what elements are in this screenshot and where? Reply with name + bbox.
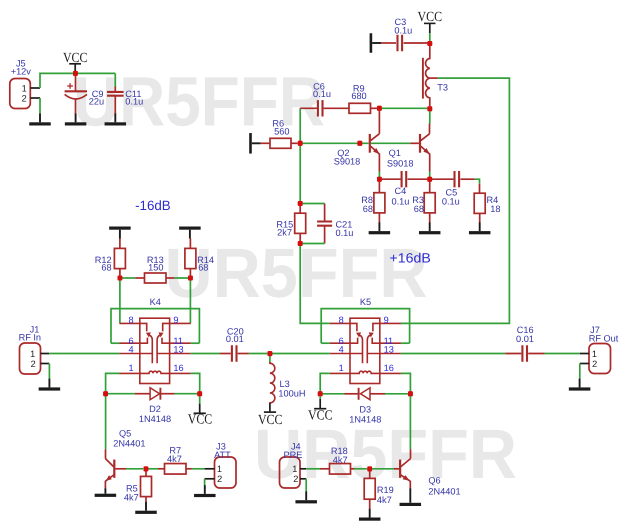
svg-text:Q6: Q6 <box>428 475 440 485</box>
svg-text:1: 1 <box>30 349 35 359</box>
svg-text:0.1u: 0.1u <box>394 25 412 35</box>
svg-text:9: 9 <box>384 315 389 325</box>
ground under R4 <box>469 222 491 234</box>
svg-text:S9018: S9018 <box>387 158 414 168</box>
connector J3 ATT <box>205 441 236 488</box>
resistor R13 150 <box>120 255 190 283</box>
svg-text:13: 13 <box>384 345 394 355</box>
wire K5 pin13 to C16 <box>401 353 506 355</box>
wire R9 node to T3 bottom node <box>379 107 429 109</box>
wire base row Q2 to Q1 <box>371 142 410 144</box>
svg-text:2k7: 2k7 <box>277 227 292 237</box>
wire D2 anode node to Q5 collector <box>105 394 107 450</box>
wire Q1 collector <box>429 109 431 124</box>
svg-text:0.01: 0.01 <box>226 334 244 344</box>
svg-text:2: 2 <box>592 359 597 369</box>
connector J1 RF In <box>19 324 50 374</box>
wire T3 tap to K5 pin9 column <box>401 78 510 323</box>
wire K5 pin1 to D3 cathode node <box>320 373 330 393</box>
svg-text:1N4148: 1N4148 <box>349 414 381 424</box>
svg-text:13: 13 <box>173 345 183 355</box>
junction base wire <box>357 141 362 146</box>
svg-text:4k7: 4k7 <box>333 455 348 465</box>
resistor R7 4k7 <box>146 446 205 475</box>
svg-text:S9018: S9018 <box>334 156 361 166</box>
junction D2 anode <box>103 391 108 396</box>
junction R18 / R19 / Q6 base <box>367 466 372 471</box>
junction C3/VCC/T3 <box>427 41 432 46</box>
svg-text:RF Out: RF Out <box>589 333 619 343</box>
svg-text:1N4148: 1N4148 <box>139 414 171 424</box>
ground left of R6 (rotated) <box>249 133 260 154</box>
wire J3 pin2 to ground <box>204 479 206 486</box>
svg-text:150: 150 <box>148 263 163 273</box>
svg-text:2: 2 <box>217 474 222 484</box>
wire J7 pin2 to ground <box>579 364 581 379</box>
junction VCC node <box>73 71 78 76</box>
svg-text:0.1u: 0.1u <box>125 97 143 107</box>
svg-text:T3: T3 <box>437 83 448 93</box>
svg-text:9: 9 <box>173 315 178 325</box>
junction R15 top <box>298 201 303 206</box>
svg-text:0.01: 0.01 <box>516 334 534 344</box>
svg-text:+12v: +12v <box>11 67 32 77</box>
capacitor C4 0.1u <box>391 171 427 206</box>
wire Q1 emitter to R3 <box>429 154 431 172</box>
wire emitter row R8 to C4 <box>382 178 401 180</box>
inductor L3 100uH <box>270 354 306 403</box>
wire C6 left column upper (C6 to base row to R15) <box>299 108 301 203</box>
svg-text:R19: R19 <box>377 485 394 495</box>
svg-text:68: 68 <box>198 263 208 273</box>
resistor R9 680 <box>349 84 377 114</box>
wire emitter row C4 to C5 <box>432 178 453 180</box>
wire Q6 emitter to ground <box>409 481 411 489</box>
junction R14/R13 <box>188 276 193 281</box>
svg-text:K4: K4 <box>150 297 161 307</box>
connector J4 PRE <box>280 441 307 488</box>
svg-text:1: 1 <box>339 363 344 373</box>
svg-text:2: 2 <box>293 474 298 484</box>
power VCC below L3 (inverted) <box>258 403 283 428</box>
wire C5 to R4 <box>475 179 480 184</box>
junction D2 cathode <box>197 391 202 396</box>
ground above R14 (inverted) <box>179 227 201 239</box>
wire J1 pin1 to K4 pin4 <box>49 353 119 355</box>
ground under C11 <box>105 114 127 126</box>
junction Q1 emitter node <box>427 177 432 182</box>
ground under R3 <box>419 222 441 234</box>
svg-text:0.1u: 0.1u <box>313 89 331 99</box>
ground under R8 <box>369 222 391 234</box>
svg-text:Q1: Q1 <box>389 148 401 158</box>
wire K5 pin16 to D3 anode node <box>401 373 411 393</box>
ground under Q5 <box>95 488 117 497</box>
svg-text:18: 18 <box>490 204 500 214</box>
power VCC below D3 (inverted) <box>308 397 333 424</box>
svg-text:D3: D3 <box>359 404 371 414</box>
connector J5 +12v <box>10 58 40 108</box>
ground above R12 (inverted) <box>109 227 130 239</box>
svg-text:D2: D2 <box>149 404 161 414</box>
svg-text:1: 1 <box>128 363 133 373</box>
junction L3 tap <box>268 351 273 356</box>
wire base row Q2 <box>300 142 368 144</box>
junction R9 right / Q2 collector <box>377 106 382 111</box>
svg-text:4k7: 4k7 <box>124 492 139 502</box>
resistor R8 68 <box>361 181 385 223</box>
svg-text:0.1u: 0.1u <box>442 196 460 206</box>
capacitor C3 0.1u <box>381 17 428 51</box>
wire J1 pin2 to ground <box>48 364 50 379</box>
wire C16 to J7 <box>545 353 580 355</box>
wire C21 branch bottom <box>300 243 324 245</box>
ground left of C3 (rotated) <box>370 33 381 53</box>
svg-text:0.1u: 0.1u <box>391 196 409 206</box>
junction Q5 base / R5 / R7 <box>144 466 149 471</box>
transistor Q6 2N4401 <box>410 449 412 459</box>
svg-text:68: 68 <box>414 204 424 214</box>
svg-text:560: 560 <box>274 127 289 137</box>
svg-text:16: 16 <box>173 363 183 373</box>
transistor Q2 S9018 <box>369 134 380 155</box>
ground under J5 <box>29 114 51 126</box>
svg-text:100uH: 100uH <box>278 388 305 398</box>
svg-text:1: 1 <box>217 464 222 474</box>
svg-text:+16dB: +16dB <box>390 251 431 266</box>
relay K4 <box>111 309 199 384</box>
ground under J1 <box>39 379 61 391</box>
transistor Q1 S9018 <box>419 134 430 155</box>
svg-text:UR5FFR: UR5FFR <box>165 234 428 312</box>
capacitor C9 22u electrolytic <box>65 74 105 114</box>
svg-text:4k7: 4k7 <box>377 495 392 505</box>
junction Q2 emitter node <box>377 177 382 182</box>
wire C20 to K5 pin4 <box>249 353 330 355</box>
svg-text:4k7: 4k7 <box>167 454 182 464</box>
svg-text:2N4401: 2N4401 <box>113 438 145 448</box>
svg-text:680: 680 <box>351 91 366 101</box>
ground under Q6 <box>400 488 422 506</box>
ground under J4 <box>295 491 317 503</box>
svg-text:C4: C4 <box>395 186 407 196</box>
svg-text:VCC: VCC <box>188 413 213 428</box>
svg-text:K5: K5 <box>360 297 371 307</box>
capacitor C21 0.1u <box>317 204 353 244</box>
capacitor C16 0.01 <box>505 325 544 362</box>
wire VCC stem to node <box>429 33 431 44</box>
wire Q2 collector <box>378 111 380 134</box>
junction R12/R13 <box>118 276 123 281</box>
capacitor C6 0.1u <box>300 81 349 116</box>
ground under R5 <box>135 502 157 514</box>
wire J4 pin2 to ground <box>305 479 307 492</box>
svg-text:VCC: VCC <box>308 408 333 423</box>
svg-text:4: 4 <box>128 345 133 355</box>
wire R14 node to K4 pin9 <box>189 278 191 323</box>
svg-text:68: 68 <box>363 204 373 214</box>
diode D3 1N4148 (mirrored) <box>320 388 410 425</box>
wire J5 pin1 to VCC rail <box>40 73 115 88</box>
ground under R19 <box>359 509 381 521</box>
resistor R14 68 <box>185 239 214 276</box>
wire C6 left column lower (R15 to K5 pin8) <box>300 244 329 324</box>
wire K4 pin16 to D2 cathode node <box>191 373 200 393</box>
power VCC top-right <box>418 10 443 33</box>
svg-text:-16dB: -16dB <box>135 198 171 213</box>
wire R18 node to Q6 base <box>372 468 394 470</box>
wire Q5 base row <box>116 468 127 470</box>
svg-text:8: 8 <box>128 315 133 325</box>
wire Q5 emitter to ground <box>104 481 106 489</box>
svg-text:8: 8 <box>339 315 344 325</box>
resistor R12 68 <box>95 239 126 276</box>
wire K4 pin13 to C20 <box>191 353 220 355</box>
wire D3 anode node to Q6 collector <box>409 394 411 449</box>
svg-text:Q5: Q5 <box>119 428 131 438</box>
power VCC top-left <box>63 51 88 74</box>
junction R6 / base wire / C6 column <box>298 141 303 146</box>
svg-text:VCC: VCC <box>258 413 283 428</box>
svg-text:1: 1 <box>292 464 297 474</box>
capacitor C11 0.1u <box>107 73 143 114</box>
junction T3 bottom / Q1 collector <box>427 106 432 111</box>
wire K4 pin1 to D2 anode node <box>106 373 120 393</box>
ground under J7 <box>569 379 591 391</box>
svg-text:22u: 22u <box>89 97 104 107</box>
transformer T3 <box>423 45 448 106</box>
transistor Q5 2N4401 (mirrored) <box>105 449 107 459</box>
resistor R19 4k7 <box>364 471 394 509</box>
capacitor C5 0.1u <box>442 171 475 206</box>
junction dots overlay <box>73 41 432 471</box>
svg-text:2N4401: 2N4401 <box>428 486 460 496</box>
relay K5 <box>321 309 409 384</box>
svg-text:0.1u: 0.1u <box>336 228 354 238</box>
wire Q2 emitter to R8 <box>378 154 380 172</box>
resistor R5 4k7 <box>124 471 152 503</box>
ground under J3 <box>194 485 216 497</box>
resistor R3 68 <box>412 181 435 223</box>
svg-text:1: 1 <box>22 84 27 94</box>
resistor R4 18 <box>474 193 500 222</box>
svg-text:PRE: PRE <box>284 450 303 460</box>
junction D3 anode <box>408 391 413 396</box>
junction R15 bottom <box>298 241 303 246</box>
resistor R6 560 <box>261 119 298 149</box>
svg-text:68: 68 <box>101 263 111 273</box>
capacitor C20 0.01 <box>220 326 249 361</box>
svg-text:ATT: ATT <box>214 450 231 460</box>
wire R12 node to K4 pin8 <box>119 278 121 323</box>
svg-text:2: 2 <box>22 94 27 104</box>
junction D3 cathode <box>318 391 323 396</box>
ground under C9 <box>65 114 87 126</box>
wire C21 branch top <box>300 203 324 205</box>
svg-text:16: 16 <box>384 363 394 373</box>
svg-text:2: 2 <box>31 359 36 369</box>
svg-text:4: 4 <box>339 345 344 355</box>
connector J7 RF Out <box>580 325 619 373</box>
resistor R15 2k7 <box>276 206 305 242</box>
diode D2 1N4148 <box>106 388 200 425</box>
power VCC below D2 (inverted) <box>188 396 213 427</box>
wire J5 pin2 to ground <box>39 98 41 114</box>
svg-text:RF In: RF In <box>19 332 41 342</box>
svg-text:1: 1 <box>592 349 597 359</box>
resistor R18 4k7 <box>306 446 367 474</box>
